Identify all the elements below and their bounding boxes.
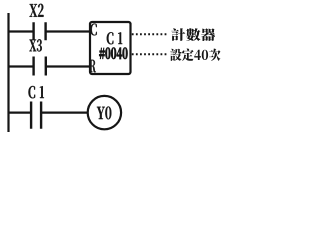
annotation 計數器 (counter) — [171, 28, 215, 41]
dotted leader to counter label — [132, 33, 167, 35]
coil label Y0 — [97, 107, 111, 120]
counter block C1 — [90, 22, 131, 74]
dotted leader to preset label — [132, 53, 168, 55]
wire rung3: rail to C1 contact — [8, 111, 31, 113]
wire rung3: C1 contact to coil Y0 — [42, 111, 87, 113]
wire rung2: X3 contact to counter R input — [47, 65, 90, 67]
wire rung1: rail to X2 contact — [8, 30, 33, 32]
label C1 — [28, 86, 43, 98]
label X2 — [30, 4, 44, 17]
label X3 — [29, 39, 41, 51]
preset value #0040 — [99, 48, 127, 59]
pin label R (reset input) — [89, 60, 96, 73]
counter name C1 — [107, 32, 122, 44]
wire rung2: rail to X3 contact — [8, 65, 33, 67]
contact C1 — [31, 102, 41, 129]
output coil Y0 — [88, 96, 121, 129]
left power rail — [7, 13, 9, 132]
wire rung1: X2 contact to counter C input — [46, 30, 90, 32]
pin label C (count input) — [90, 24, 97, 36]
contact X2 — [34, 22, 46, 40]
annotation 設定40次 (set 40 times) — [170, 48, 220, 60]
contact X3 — [34, 57, 46, 76]
